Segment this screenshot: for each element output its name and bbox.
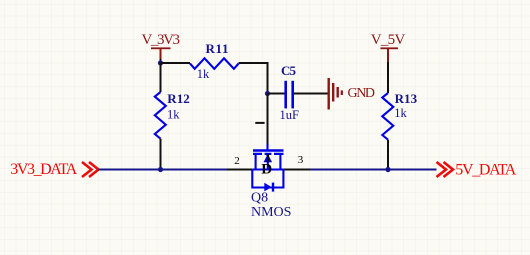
- svg-text:V_5V: V_5V: [371, 32, 406, 48]
- svg-text:5V_DATA: 5V_DATA: [455, 162, 516, 179]
- port 5V_DATA: [437, 162, 517, 179]
- resistor R12: [155, 63, 190, 170]
- svg-text:NMOS: NMOS: [251, 205, 291, 220]
- svg-text:D: D: [261, 161, 272, 177]
- ground GND: [328, 78, 376, 110]
- gate bar: [253, 149, 284, 151]
- capacitor C5: [268, 63, 328, 122]
- source leg: [255, 154, 257, 170]
- wire Q8 to 5V_DATA: [310, 169, 437, 171]
- transistor Q8 (NMOS): [234, 151, 303, 220]
- svg-text:1k: 1k: [197, 67, 210, 81]
- svg-text:1k: 1k: [394, 106, 407, 120]
- pin number 1 (rotated) of Q8 gate: [255, 122, 264, 124]
- wire junction to R11/R12: [160, 59, 162, 63]
- node: R13 to data line junction: [385, 167, 390, 172]
- gate pin stub (blue): [266, 144, 268, 151]
- svg-text:R11: R11: [206, 41, 229, 56]
- wire 3V3_DATA to Q8: [99, 169, 228, 171]
- svg-text:3: 3: [298, 154, 304, 166]
- svg-text:2: 2: [234, 155, 240, 167]
- svg-text:Q8: Q8: [251, 191, 268, 206]
- body diode: [264, 183, 271, 192]
- svg-text:1k: 1k: [167, 108, 180, 122]
- svg-text:GND: GND: [348, 86, 376, 101]
- Q8 pin 3: [283, 169, 310, 171]
- power port V_5V: [371, 32, 406, 63]
- resistor R13: [382, 62, 417, 170]
- svg-text:1uF: 1uF: [280, 108, 300, 122]
- svg-text:R12: R12: [167, 91, 190, 106]
- channel segments: [253, 153, 284, 155]
- node A junction dot: [158, 60, 163, 65]
- node B junction dot (gate/C5): [265, 91, 270, 96]
- node: R12 to data line junction: [158, 167, 163, 172]
- wire junction to gate: [267, 94, 269, 144]
- drain leg: [279, 154, 281, 170]
- svg-text:3V3_DATA: 3V3_DATA: [10, 161, 77, 178]
- power port V_3V3: [142, 32, 181, 60]
- svg-text:C5: C5: [281, 63, 297, 78]
- body arrow: [267, 162, 269, 170]
- resistor R11: [161, 41, 268, 92]
- body connection across: [252, 168, 283, 170]
- body diode loop: [252, 170, 283, 188]
- port 3V3_DATA: [10, 161, 98, 178]
- svg-text:V_3V3: V_3V3: [142, 32, 181, 48]
- Q8 pin 2: [227, 169, 252, 171]
- svg-text:R13: R13: [395, 91, 418, 106]
